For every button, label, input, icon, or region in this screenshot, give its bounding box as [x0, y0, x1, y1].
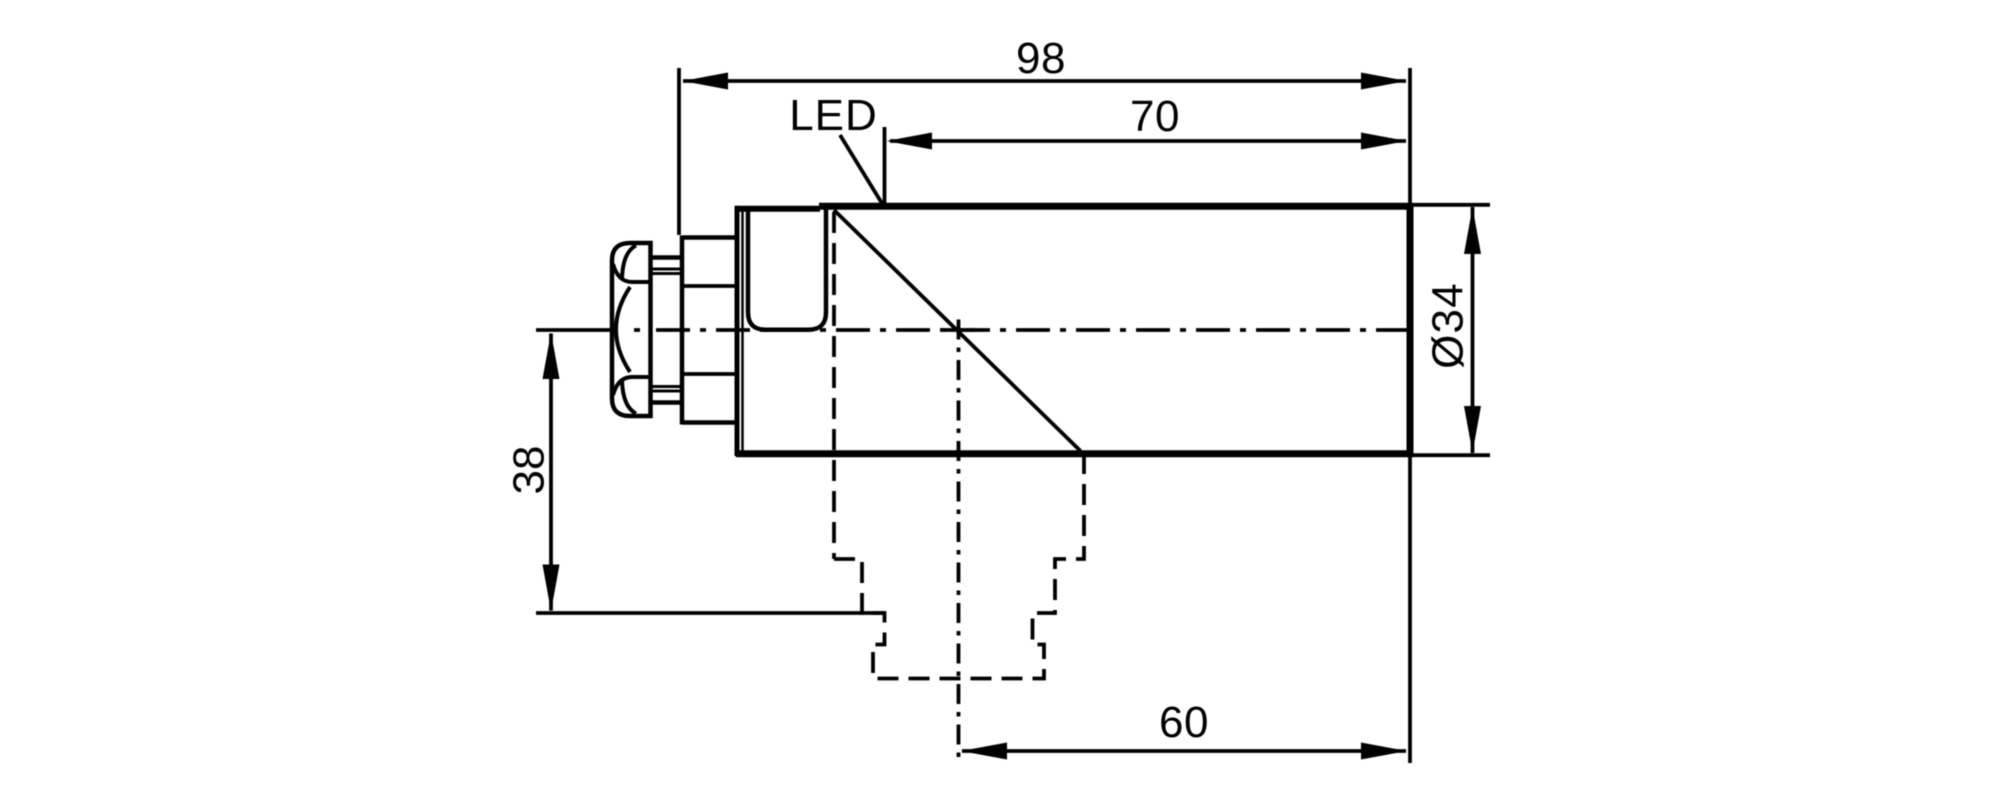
collar inner thin vertical — [741, 211, 744, 451]
hex nut middle facet arc — [616, 287, 630, 372]
LED window — [748, 207, 826, 330]
arrow 70 left — [887, 133, 933, 150]
main body — [736, 206, 1410, 453]
collar top edge — [737, 206, 820, 212]
arrow 60 left — [961, 743, 1007, 760]
hex nut bottom facet arc — [622, 381, 636, 414]
horizontal center line solid segment (38 top extension) — [536, 328, 612, 332]
hex nut outline — [612, 243, 651, 416]
dim line 70 — [890, 139, 1406, 143]
horizontal center line first dot — [634, 328, 640, 332]
98 left extension line — [677, 68, 681, 235]
70 extension line — [883, 127, 887, 204]
right extension line (98/70/60) — [1408, 68, 1412, 763]
dim line 98 — [683, 79, 1406, 83]
svg-text:70: 70 — [1130, 92, 1180, 141]
dashed hidden vertical left + step profile + right vertical — [834, 212, 1084, 679]
washer tab top — [651, 258, 682, 274]
svg-text:LED: LED — [789, 91, 878, 140]
arrow 38 down — [543, 565, 560, 612]
arrow 38 up — [543, 333, 560, 380]
svg-text:38: 38 — [505, 446, 554, 495]
vertical center line dash-dot (60 extension) — [957, 320, 961, 763]
LED leader line — [840, 135, 883, 205]
arrow dia34 down — [1464, 406, 1481, 453]
dim line 60 — [962, 749, 1406, 753]
arrow dia34 up — [1464, 207, 1481, 254]
svg-text:Ø34: Ø34 — [1424, 282, 1473, 369]
connector barrel — [682, 236, 736, 425]
arrow 70 right — [1361, 133, 1407, 150]
hex nut lower facet line — [613, 377, 651, 395]
38 bottom extension line — [536, 611, 885, 615]
hex nut upper facet line — [613, 264, 651, 282]
arrow 98 left — [683, 73, 729, 90]
svg-text:60: 60 — [1159, 698, 1209, 747]
dim line 38 — [549, 334, 553, 611]
dim line dia34 — [1471, 207, 1475, 453]
washer tab bottom — [651, 387, 682, 403]
center cross solid tick horizontal — [941, 328, 975, 332]
arrow 98 right — [1361, 73, 1407, 90]
horizontal center line dash-dot — [656, 328, 1409, 332]
svg-text:98: 98 — [1016, 34, 1066, 83]
dia34 extension lines — [1414, 205, 1491, 455]
arrow 60 right — [1361, 743, 1407, 760]
diagonal line — [834, 210, 1081, 451]
collar left edge — [735, 206, 740, 456]
hex nut top facet arc — [622, 246, 636, 279]
